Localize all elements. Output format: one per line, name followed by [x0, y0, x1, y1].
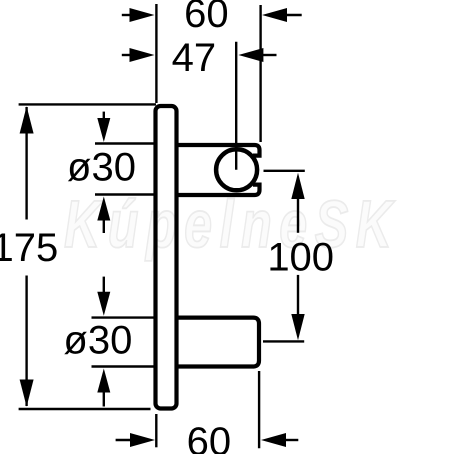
svg-text:KúpelneSK: KúpelneSK	[64, 187, 400, 262]
svg-text:100: 100	[267, 235, 334, 279]
svg-text:ø30: ø30	[63, 319, 132, 363]
svg-text:60: 60	[184, 0, 229, 36]
svg-text:47: 47	[172, 36, 217, 80]
svg-text:ø30: ø30	[67, 146, 136, 190]
svg-text:60: 60	[187, 420, 232, 454]
svg-text:175: 175	[0, 226, 58, 270]
